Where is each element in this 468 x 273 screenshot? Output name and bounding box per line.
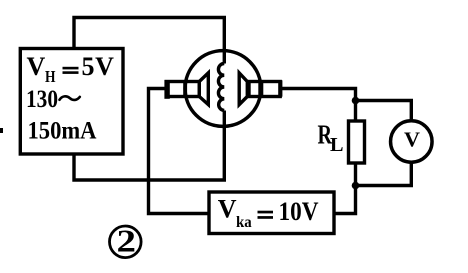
svg-text:L: L <box>330 134 344 156</box>
svg-text:H: H <box>45 67 56 86</box>
svg-text:V: V <box>27 52 46 81</box>
svg-text:5V: 5V <box>82 52 115 81</box>
svg-text:10V: 10V <box>279 197 319 226</box>
svg-text:150mA: 150mA <box>28 117 97 144</box>
svg-text:ka: ka <box>236 214 252 231</box>
svg-text:V: V <box>404 128 420 152</box>
svg-text:2: 2 <box>117 223 137 259</box>
svg-text:V: V <box>218 195 237 224</box>
svg-text:130: 130 <box>26 86 58 113</box>
